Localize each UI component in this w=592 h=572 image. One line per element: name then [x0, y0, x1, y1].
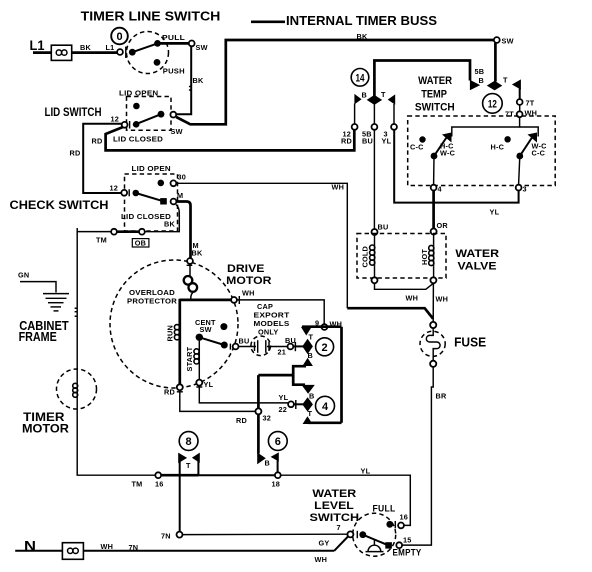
- svg-text:L1: L1: [106, 43, 115, 52]
- svg-text:SW: SW: [196, 43, 208, 52]
- switch 2 upper contact triangle: [528, 133, 538, 143]
- svg-text:LID CLOSED: LID CLOSED: [113, 135, 163, 144]
- svg-text:L1: L1: [30, 38, 45, 53]
- dashed box: [357, 234, 446, 279]
- svg-text:T: T: [308, 409, 313, 418]
- svg-text:WH: WH: [332, 183, 345, 192]
- svg-text:WATER: WATER: [455, 248, 499, 260]
- wire check M to OB segment: [145, 205, 179, 232]
- wire capacitor to 21: [267, 346, 288, 348]
- contact dot H-C: [504, 136, 510, 142]
- svg-text:RD: RD: [92, 137, 103, 146]
- svg-text:B: B: [308, 351, 313, 360]
- svg-text:BK: BK: [193, 76, 204, 85]
- timer cam 12: [470, 43, 537, 119]
- svg-text:7: 7: [337, 523, 341, 532]
- connector tick: [229, 344, 231, 350]
- connector tick: [356, 531, 358, 538]
- svg-text:PUSH: PUSH: [163, 67, 185, 76]
- svg-text:WH: WH: [315, 555, 328, 564]
- svg-text:6: 6: [275, 436, 281, 448]
- circled 4: [316, 396, 335, 415]
- timer line switch S1: [81, 10, 221, 76]
- svg-text:LID SWITCH: LID SWITCH: [45, 106, 102, 119]
- svg-text:12: 12: [488, 99, 497, 111]
- svg-text:EMPTY: EMPTY: [393, 548, 422, 558]
- svg-text:30: 30: [178, 173, 187, 182]
- wire WH check 30 to fuse: [176, 183, 448, 319]
- svg-text:YL: YL: [490, 208, 500, 217]
- wire buss to cam 14 and cam 12 (thick): [374, 61, 470, 97]
- svg-text:B: B: [265, 459, 270, 468]
- svg-text:4: 4: [322, 401, 329, 413]
- run winding: [174, 325, 179, 330]
- blade: [199, 337, 224, 345]
- node 7N: [161, 532, 347, 541]
- wire BK check M down to drive motor: [177, 202, 203, 258]
- svg-text:TM: TM: [132, 480, 143, 489]
- connector tick: [129, 121, 131, 129]
- node L1 (line input terminal): [30, 38, 126, 60]
- switch body dashed circle: [127, 32, 169, 74]
- svg-text:LID OPEN: LID OPEN: [132, 164, 171, 173]
- terminal circle SW: [189, 41, 195, 47]
- wire common from WH terminal into box: [452, 117, 520, 136]
- connector tick: [295, 400, 297, 409]
- node N (neutral input): [15, 537, 348, 565]
- terminal circle 3: [516, 185, 522, 191]
- cam 14 diamond: [367, 95, 382, 105]
- svg-text:FUSE: FUSE: [454, 336, 486, 350]
- svg-text:ONLY: ONLY: [258, 328, 278, 337]
- svg-text:BU: BU: [378, 223, 389, 232]
- contact triangle right: [192, 453, 200, 463]
- timer cam 8: [178, 432, 200, 532]
- circled 8: [179, 432, 198, 451]
- wire BR fuse to water level 15: [402, 367, 447, 545]
- svg-text:SW: SW: [502, 37, 514, 46]
- connector tick: [238, 296, 240, 304]
- svg-text:14: 14: [356, 73, 366, 85]
- svg-text:BK: BK: [80, 43, 91, 52]
- svg-text:WH: WH: [436, 295, 449, 304]
- water valve: [357, 229, 499, 284]
- contact T triangle (down): [301, 327, 312, 336]
- water level switch S4: [310, 488, 422, 558]
- circled 6: [268, 432, 287, 451]
- svg-text:5B: 5B: [475, 67, 485, 76]
- cam 14 contact B triangle: [354, 94, 361, 105]
- svg-text:2: 2: [322, 342, 328, 354]
- wire pivot2 to terminal 3: [519, 156, 520, 185]
- terminal circle SW (timer): [494, 37, 500, 43]
- svg-text:BU: BU: [239, 337, 250, 346]
- connector tick: [187, 264, 193, 266]
- wire 21 to cam 2 diamond: [293, 345, 303, 347]
- internal timer buss legend: [251, 14, 437, 28]
- wire timer motor to bus terminal 16: [77, 472, 155, 475]
- circled 12: [483, 94, 503, 114]
- svg-text:SWITCH: SWITCH: [310, 512, 360, 524]
- svg-text:BU: BU: [362, 137, 373, 146]
- lead right down to 18: [277, 461, 279, 473]
- connector tick: [196, 386, 202, 388]
- svg-text:START: START: [185, 346, 194, 371]
- bus wire: [161, 474, 198, 477]
- svg-text:7N: 7N: [129, 543, 139, 552]
- svg-text:B: B: [479, 76, 484, 85]
- terminal circle 21: [288, 344, 294, 350]
- fuse element: [426, 328, 440, 361]
- terminal circle 12: [121, 190, 127, 196]
- dashed circle: [353, 513, 396, 556]
- switch 2 pivot: [516, 153, 523, 160]
- pressure dome: [373, 540, 375, 546]
- svg-text:32: 32: [263, 414, 272, 423]
- bus continues to water level full: [281, 475, 411, 525]
- svg-text:WH: WH: [406, 294, 419, 303]
- connector tick: [294, 342, 296, 351]
- terminal circle OB: [139, 229, 145, 235]
- start winding: [198, 341, 200, 380]
- cam 12 contact B triangle: [470, 80, 480, 90]
- svg-text:BK: BK: [164, 220, 175, 229]
- svg-text:16: 16: [155, 480, 164, 489]
- svg-text:FULL: FULL: [373, 504, 396, 514]
- wire 22 to cam 4 diamond: [294, 403, 303, 405]
- wire timer buss BK (lid SW up to top rail, right to SW): [176, 32, 513, 124]
- wire YL temp 3 to cam 14 terminal 3: [394, 130, 518, 217]
- svg-text:HOT: HOT: [420, 249, 429, 265]
- terminal circle 15: [396, 542, 402, 548]
- blade: [136, 193, 164, 201]
- svg-text:OB: OB: [135, 239, 146, 248]
- wire L1 lead-in BK: [33, 51, 118, 54]
- contact LID OPEN: [133, 103, 140, 110]
- svg-text:PULL: PULL: [162, 33, 185, 42]
- timer motor M2: [22, 369, 97, 435]
- wire RD motor to node 32: [180, 390, 271, 425]
- pivot contact: [133, 190, 140, 197]
- contact PUSH: [154, 59, 161, 66]
- svg-text:COLD: COLD: [361, 246, 370, 267]
- svg-text:16: 16: [400, 513, 409, 522]
- svg-text:7N: 7N: [161, 532, 171, 541]
- terminal circle 22: [288, 401, 294, 407]
- terminal circle M at motor top: [187, 258, 193, 264]
- wire N rises to water level 7: [334, 537, 348, 551]
- terminal circle SW: [170, 112, 176, 118]
- svg-text:YL: YL: [204, 380, 214, 389]
- blade to PULL: [132, 43, 157, 52]
- terminal circle TM: [111, 229, 117, 235]
- svg-text:15: 15: [403, 536, 412, 545]
- terminal circle BU: [233, 344, 239, 350]
- wire WH motor to node 9: [237, 300, 342, 330]
- svg-text:C-C: C-C: [532, 149, 546, 158]
- connector plug L1: [51, 45, 71, 60]
- check switch S3: [10, 164, 187, 231]
- wire temp 4 to water valve OR: [432, 191, 435, 229]
- terminal circle fuse bottom: [430, 361, 436, 367]
- terminal circle WH: [231, 297, 237, 303]
- cam 12 diamond: [487, 81, 503, 91]
- motor left side wire with run winding: [178, 299, 181, 385]
- cabinet frame ground symbol: [19, 294, 69, 344]
- svg-text:TIMER LINE SWITCH: TIMER LINE SWITCH: [81, 10, 221, 24]
- svg-text:MOTOR: MOTOR: [22, 421, 69, 435]
- svg-text:PROTECTOR: PROTECTOR: [127, 297, 178, 306]
- svg-text:WATER: WATER: [418, 75, 452, 87]
- svg-text:RD: RD: [341, 137, 352, 146]
- svg-text:SW: SW: [171, 127, 183, 136]
- wire RD lid 12 to check 12: [70, 124, 122, 193]
- connector plug N: [62, 543, 83, 560]
- terminal circle YL: [196, 380, 202, 386]
- terminal circle 32: [255, 408, 261, 414]
- terminal circle cold bottom: [372, 277, 378, 283]
- terminal circle fuse top: [430, 322, 436, 328]
- svg-text:BR: BR: [436, 392, 447, 401]
- contact triangle right: [271, 452, 279, 461]
- terminal circle 12: [352, 124, 358, 130]
- wire BU cam14 5B to water valve: [373, 130, 375, 229]
- wire WH valve return to fuse: [375, 283, 434, 322]
- label OB boxed: [132, 239, 149, 247]
- cam 12 contact T triangle: [512, 79, 521, 89]
- svg-text:TM: TM: [96, 236, 107, 245]
- svg-text:4: 4: [438, 185, 443, 194]
- wire node 9 rail (cam2 T to cam4 T): [302, 327, 342, 423]
- pivot contact: [359, 531, 366, 538]
- svg-text:0: 0: [116, 31, 122, 43]
- terminal circle RD: [177, 384, 183, 390]
- wire RD lid 12 to timer cam 14: [92, 127, 355, 150]
- svg-text:T: T: [186, 461, 191, 470]
- terminal circle 16: [155, 472, 161, 478]
- svg-text:WH: WH: [242, 289, 255, 298]
- svg-text:18: 18: [272, 480, 281, 489]
- wire YL start winding to 22: [199, 386, 288, 403]
- open contact dot: [220, 323, 227, 330]
- capacitor plates: [257, 340, 259, 353]
- wire 7N to water level 7: [183, 533, 348, 535]
- terminal circle 5B: [372, 124, 378, 130]
- svg-text:SWITCH: SWITCH: [415, 102, 455, 114]
- timer motor winding: [73, 383, 78, 388]
- svg-text:SW: SW: [200, 325, 212, 334]
- terminal circle OR: [431, 229, 437, 235]
- terminal circle 7T: [517, 99, 523, 105]
- dashed box: [127, 97, 172, 131]
- svg-text:3: 3: [523, 185, 527, 194]
- wire SW down to diamond: [494, 43, 497, 82]
- svg-text:BK: BK: [192, 249, 203, 258]
- connector tick: [177, 391, 183, 393]
- circled 0: [111, 28, 128, 45]
- svg-text:BK: BK: [357, 32, 368, 41]
- wire N lead-in: [15, 550, 334, 552]
- svg-text:12: 12: [110, 184, 119, 193]
- circled 2: [316, 338, 334, 356]
- svg-text:DRIVE: DRIVE: [227, 263, 265, 275]
- fuse F1: [420, 322, 486, 367]
- switch 1 upper contact triangle: [442, 133, 452, 143]
- contact B triangle (up): [302, 358, 313, 366]
- lead right down to bus: [197, 461, 199, 476]
- svg-text:B: B: [362, 91, 367, 100]
- timer cam 6: [257, 432, 287, 473]
- svg-text:W-C: W-C: [440, 149, 456, 158]
- fuse body dashed circle: [420, 331, 445, 356]
- svg-text:T: T: [381, 90, 386, 99]
- timer cam 2: [301, 327, 334, 366]
- contact LID OPEN: [158, 180, 165, 187]
- cam 14 contact T triangle: [388, 94, 396, 104]
- connector tick L1: [125, 47, 127, 58]
- svg-text:M: M: [177, 191, 183, 200]
- wire BK from SW down to lid switch: [177, 46, 204, 114]
- bus 16-18: [132, 467, 411, 526]
- overload protector rings: [189, 264, 191, 276]
- ground GN wire: [18, 271, 56, 293]
- terminal circle 12: [122, 122, 128, 128]
- dashed box: [408, 116, 556, 186]
- connector ticks on BK wire: [189, 86, 191, 88]
- svg-text:7T: 7T: [505, 110, 514, 119]
- water temp switch: [408, 75, 556, 194]
- lead B to 12: [354, 104, 356, 125]
- svg-text:RD: RD: [164, 388, 175, 397]
- terminal circle 3: [391, 124, 397, 130]
- svg-text:LEVEL: LEVEL: [314, 500, 354, 512]
- terminal circle 30: [171, 180, 177, 186]
- svg-text:YL: YL: [279, 393, 289, 402]
- svg-text:RUN: RUN: [166, 325, 175, 341]
- svg-text:GY: GY: [319, 539, 330, 548]
- pivot contact: [129, 49, 136, 56]
- svg-text:CHECK SWITCH: CHECK SWITCH: [10, 198, 109, 212]
- svg-text:C-C: C-C: [410, 143, 424, 152]
- svg-text:TEMP: TEMP: [421, 88, 447, 100]
- contact triangle left: [178, 453, 187, 464]
- dashed circle: [251, 336, 271, 356]
- cold solenoid coil: [374, 235, 376, 267]
- wire TM-OB: [117, 230, 139, 233]
- svg-text:B: B: [309, 392, 314, 401]
- lid switch S2: [45, 89, 183, 144]
- diamond: [302, 339, 313, 354]
- svg-text:INTERNAL TIMER BUSS: INTERNAL TIMER BUSS: [286, 14, 437, 28]
- contact dot C-C: [419, 136, 425, 142]
- svg-text:22: 22: [279, 405, 288, 414]
- wire 7T to WH terminal: [519, 105, 521, 112]
- wire pivot1 to terminal 4: [433, 156, 435, 185]
- svg-text:YL: YL: [382, 137, 392, 146]
- motor body dashed circle: [110, 260, 238, 388]
- lead left down to 7N: [179, 461, 181, 532]
- terminal circle 16: [398, 523, 404, 529]
- timer cam 4: [279, 385, 335, 424]
- dashed circle: [57, 369, 97, 409]
- node TM / OB connector segment: [77, 228, 149, 248]
- terminal circle hot bottom: [430, 277, 436, 283]
- pivot: [196, 334, 203, 341]
- motor top wire to WH terminal: [180, 299, 231, 302]
- terminal circle 7N: [177, 532, 183, 538]
- svg-text:VALVE: VALVE: [458, 261, 497, 273]
- circled 14: [351, 69, 369, 87]
- svg-text:RD: RD: [236, 416, 247, 425]
- contact FULL: [386, 521, 393, 528]
- drive motor M1: [110, 258, 271, 396]
- dashed box: [125, 174, 178, 231]
- svg-text:12: 12: [111, 115, 120, 124]
- diamond: [302, 397, 313, 411]
- wire BU to capacitor: [239, 346, 257, 348]
- contact B triangle (down): [302, 385, 315, 394]
- svg-text:8: 8: [186, 436, 192, 448]
- contact LID CLOSED: [133, 121, 140, 128]
- wire cam2 B to cam4 B and rail 32: [258, 366, 306, 453]
- left rail to timer motor: [75, 232, 78, 472]
- switch 2 blade: [520, 138, 532, 157]
- terminal circle WH: [517, 111, 523, 117]
- svg-text:RD: RD: [70, 149, 81, 158]
- terminal circle BU: [372, 229, 378, 235]
- hot solenoid coil: [433, 235, 435, 267]
- terminal circle 4: [431, 185, 437, 191]
- contact T triangle (up): [303, 416, 313, 424]
- capacitor C1 (export models): [239, 302, 304, 357]
- svg-text:OR: OR: [437, 221, 449, 230]
- svg-text:WATER: WATER: [312, 488, 356, 500]
- svg-text:FRAME: FRAME: [19, 329, 58, 344]
- terminal circle 7: [347, 531, 353, 537]
- svg-text:GN: GN: [18, 271, 29, 280]
- blade to EMPTY: [363, 535, 389, 546]
- svg-text:21: 21: [278, 348, 287, 357]
- svg-text:H-C: H-C: [491, 143, 505, 152]
- svg-text:T: T: [309, 333, 314, 342]
- svg-text:WH: WH: [101, 542, 114, 551]
- connector tick: [128, 189, 130, 196]
- lead T to 3: [393, 104, 395, 124]
- connector tick: [394, 521, 396, 528]
- timer cam 14: [341, 69, 397, 146]
- svg-text:7T: 7T: [526, 99, 535, 108]
- terminal circle 9: [322, 324, 328, 330]
- terminal circle L1: [117, 49, 123, 55]
- lead T down to 7T: [519, 88, 521, 99]
- svg-text:MOTOR: MOTOR: [226, 275, 271, 287]
- switch 1 blade: [434, 138, 447, 157]
- blade: [133, 114, 161, 125]
- svg-text:T: T: [503, 76, 508, 85]
- switch 1 pivot: [431, 153, 438, 160]
- connector ticks: [75, 307, 78, 309]
- wire blade to SW: [158, 42, 189, 45]
- lead diamond down to 5B: [373, 104, 375, 124]
- terminal circle M: [171, 199, 177, 205]
- terminal circle 18: [275, 472, 281, 478]
- svg-text:YL: YL: [361, 467, 371, 476]
- contact triangle left: [257, 452, 266, 464]
